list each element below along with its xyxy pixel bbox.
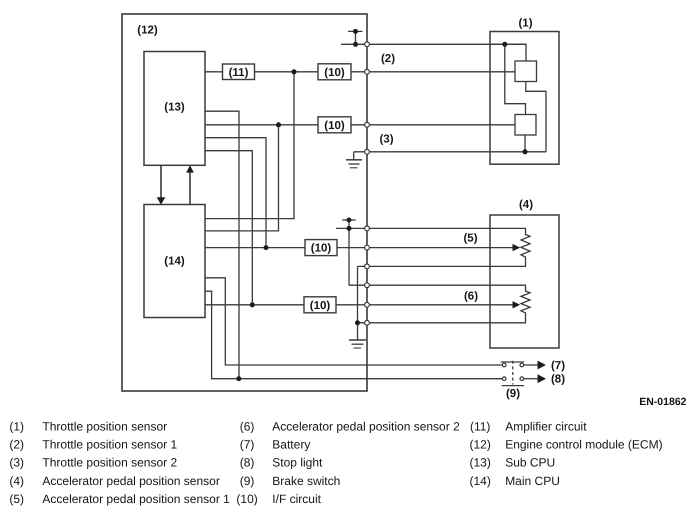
junction dot sensor1 ground node bbox=[523, 149, 528, 154]
junction dot S2 node bbox=[276, 122, 281, 127]
ground G2 lead bbox=[357, 323, 359, 340]
arrowhead wiper (5) bbox=[513, 244, 521, 251]
potentiometer R2 zigzag bbox=[521, 285, 530, 323]
junction dot ground2 node bbox=[355, 320, 360, 325]
wire main CPU branch to node at amplifier output bbox=[205, 72, 294, 219]
connector pin circle (3) bbox=[365, 149, 370, 154]
wire supply to sensor4 pot1 top bbox=[336, 227, 526, 229]
wire sensor4 pot1 bottom return bbox=[358, 265, 527, 267]
sensor1 element1 square bbox=[515, 61, 537, 82]
power symbol top bar bbox=[348, 30, 362, 32]
switch7 closed bar bbox=[501, 361, 524, 363]
svg-text:Main CPU: Main CPU bbox=[505, 474, 560, 488]
svg-text:(14): (14) bbox=[164, 256, 185, 268]
wire sub CPU S3 down to I/F3 wire bbox=[205, 138, 266, 248]
svg-text:(11): (11) bbox=[229, 67, 249, 79]
switch8 contact right bbox=[520, 377, 524, 381]
switch7 contact right bbox=[520, 363, 524, 367]
wire ground link vertical bbox=[357, 266, 359, 322]
svg-text:(8): (8) bbox=[551, 374, 565, 386]
svg-text:Engine control module (ECM): Engine control module (ECM) bbox=[505, 438, 662, 452]
ground G2 bbox=[349, 340, 366, 348]
arrow up main CPU to sub CPU bbox=[186, 165, 194, 204]
svg-text:(3): (3) bbox=[379, 134, 393, 146]
junction dot power lower upper bbox=[347, 218, 352, 223]
connector pin circle (supply lower) bbox=[365, 226, 370, 231]
svg-text:(3): (3) bbox=[9, 456, 24, 470]
svg-text:(4): (4) bbox=[519, 199, 533, 211]
arrowhead to battery (7) bbox=[538, 361, 547, 370]
junction dot power top upper bbox=[353, 29, 358, 34]
arrowhead to stop light (8) bbox=[538, 374, 547, 383]
svg-text:Throttle position sensor 1: Throttle position sensor 1 bbox=[42, 438, 177, 452]
svg-text:(6): (6) bbox=[464, 291, 478, 303]
wire amplifier to I/F top bbox=[255, 71, 319, 73]
sensor1 element2 square bbox=[515, 115, 536, 136]
I/F box 2 bbox=[318, 117, 351, 133]
svg-text:(5): (5) bbox=[463, 233, 477, 245]
svg-text:(7): (7) bbox=[240, 438, 255, 452]
wire main CPU to I/F3 bbox=[205, 247, 305, 249]
svg-text:(10): (10) bbox=[324, 120, 345, 132]
connector pin circle (pot2 return) bbox=[365, 320, 370, 325]
sensor1 box (1) throttle position sensor bbox=[490, 32, 559, 165]
junction dot brake wire node bbox=[236, 376, 241, 381]
junction dot power top lower bbox=[353, 42, 358, 47]
wire element1 bottom loop bbox=[526, 82, 546, 152]
wire sensor4 pot2 bottom return bbox=[358, 322, 527, 324]
arrow down sub CPU to main CPU bbox=[157, 165, 166, 204]
svg-text:(13): (13) bbox=[164, 102, 185, 114]
wire power vertical lower bbox=[348, 220, 350, 228]
svg-text:(4): (4) bbox=[9, 474, 24, 488]
svg-text:Battery: Battery bbox=[272, 438, 310, 452]
svg-text:Throttle position sensor: Throttle position sensor bbox=[42, 420, 167, 434]
svg-text:(12): (12) bbox=[470, 438, 491, 452]
connector pin circle (5) bbox=[365, 245, 370, 250]
label (9) overline bbox=[502, 385, 524, 387]
wire main CPU to stop light switch (8) bbox=[205, 291, 502, 379]
main CPU box (14) bbox=[144, 205, 205, 318]
svg-text:Accelerator pedal position sen: Accelerator pedal position sensor bbox=[42, 474, 219, 488]
wire sub CPU to amplifier bbox=[205, 71, 223, 73]
svg-text:(7): (7) bbox=[551, 360, 565, 372]
wire switch7 to arrow bbox=[524, 364, 538, 366]
wire sub CPU S1 down to brake wire bbox=[205, 111, 239, 379]
I/F box 1 bbox=[318, 64, 351, 80]
connector pin circle (pot1 return) bbox=[365, 264, 370, 269]
ground G1 bbox=[346, 160, 362, 168]
svg-text:(10): (10) bbox=[236, 492, 257, 506]
svg-text:(9): (9) bbox=[240, 474, 255, 488]
svg-text:(10): (10) bbox=[310, 300, 331, 312]
brake switch SW9 dashed link bbox=[512, 361, 514, 385]
svg-text:EN-01862: EN-01862 bbox=[639, 396, 686, 408]
wire I/F3 output to sensor4 wiper (5) bbox=[337, 247, 514, 249]
wire main CPU to I/F4 bbox=[205, 304, 304, 306]
svg-text:Amplifier circuit: Amplifier circuit bbox=[505, 420, 587, 434]
svg-text:Brake switch: Brake switch bbox=[272, 474, 340, 488]
svg-text:(1): (1) bbox=[518, 18, 532, 30]
wire I/F2 output to sensor1 element2 bbox=[351, 124, 515, 126]
wire supply branch to element2 bbox=[505, 44, 526, 114]
I/F box 3 bbox=[305, 240, 337, 256]
svg-text:Accelerator pedal position sen: Accelerator pedal position sensor 1 bbox=[42, 492, 230, 506]
wire element2 bottom bbox=[524, 135, 526, 152]
wire (3) ground return from sensor1 bbox=[354, 151, 546, 153]
potentiometer R1 zigzag bbox=[521, 228, 530, 266]
power symbol lower bar bbox=[342, 219, 355, 221]
svg-text:(10): (10) bbox=[311, 243, 332, 255]
wire supply into element1 bbox=[490, 44, 526, 61]
svg-text:(2): (2) bbox=[9, 438, 24, 452]
connector pin circle (sensor1 elem2) bbox=[365, 122, 370, 127]
junction dot sensor1 supply bbox=[502, 42, 507, 47]
arrowhead wiper (6) bbox=[513, 301, 521, 308]
connector pin circle (6) bbox=[365, 302, 370, 307]
sensor4 box (4) accelerator pedal position sensor bbox=[490, 215, 559, 348]
wire supply stub top bbox=[341, 43, 526, 45]
svg-text:(13): (13) bbox=[470, 456, 491, 470]
svg-text:Sub CPU: Sub CPU bbox=[505, 456, 555, 470]
svg-text:Throttle position sensor 2: Throttle position sensor 2 bbox=[42, 456, 177, 470]
svg-text:(11): (11) bbox=[470, 420, 490, 434]
connector pin circle (supply pot2) bbox=[365, 283, 370, 288]
ECM box U12 Engine control module bbox=[122, 14, 367, 391]
svg-text:(8): (8) bbox=[240, 456, 255, 470]
svg-text:Stop light: Stop light bbox=[272, 456, 323, 470]
svg-text:(9): (9) bbox=[506, 388, 520, 400]
junction dot power lower lower bbox=[347, 226, 352, 231]
svg-text:(14): (14) bbox=[470, 474, 491, 488]
wire main CPU to battery switch (7) bbox=[205, 278, 502, 365]
wire sub CPU S2 to I/F2 bbox=[205, 124, 318, 126]
svg-text:(1): (1) bbox=[9, 420, 24, 434]
connector pin circle (supply top) bbox=[365, 42, 370, 47]
switch8 contact left bbox=[502, 377, 506, 381]
amplifier box (11) bbox=[223, 64, 255, 80]
wire supply to sensor4 pot2 top bbox=[349, 284, 526, 286]
sub CPU box (13) bbox=[144, 52, 205, 166]
wire main CPU branch to node on S2 bbox=[205, 125, 279, 231]
svg-text:(10): (10) bbox=[324, 67, 345, 79]
wire switch8 to arrow bbox=[524, 378, 538, 380]
svg-text:Accelerator pedal position sen: Accelerator pedal position sensor 2 bbox=[272, 420, 460, 434]
junction dot I/F4 node bbox=[250, 302, 255, 307]
svg-text:(2): (2) bbox=[381, 53, 395, 65]
switch7 contact left bbox=[502, 363, 506, 367]
ground G1 lead bbox=[353, 152, 355, 160]
wire supply branch down bbox=[348, 228, 350, 285]
wire power vertical top bbox=[355, 31, 357, 44]
wire I/F4 output to sensor4 wiper (6) bbox=[336, 304, 514, 306]
I/F box 4 bbox=[304, 297, 336, 313]
svg-text:I/F circuit: I/F circuit bbox=[272, 492, 321, 506]
junction dot I/F3 node bbox=[264, 245, 269, 250]
svg-text:(5): (5) bbox=[9, 492, 24, 506]
wire (2) from I/F to sensor1 element1 bbox=[351, 71, 515, 73]
svg-text:(6): (6) bbox=[240, 420, 255, 434]
connector pin circle (2) bbox=[365, 69, 370, 74]
junction dot amplifier output node bbox=[292, 69, 297, 74]
wire sub CPU S4 down to I/F4 wire bbox=[205, 151, 252, 305]
svg-text:(12): (12) bbox=[137, 25, 158, 37]
